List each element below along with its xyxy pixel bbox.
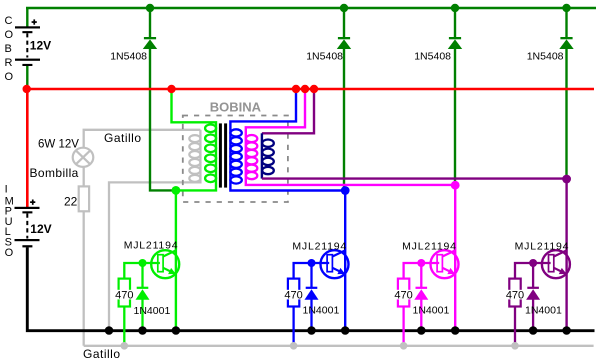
secondary winding 3 loops bbox=[262, 140, 274, 175]
transistor Q2 MJL21194 base wire bbox=[294, 263, 330, 279]
junction red rail battery bbox=[23, 85, 31, 93]
svg-text:470: 470 bbox=[506, 290, 524, 302]
junction ground rail emitter Q1 bbox=[172, 326, 181, 335]
wire diode Q3 to ground rail bbox=[420, 300, 422, 331]
junction Q1 base bbox=[139, 259, 147, 267]
wire lamp top to trigger winding bbox=[84, 130, 201, 148]
svg-text:12V: 12V bbox=[30, 39, 51, 53]
svg-text:O: O bbox=[5, 71, 14, 83]
svg-text:470: 470 bbox=[115, 290, 133, 302]
transistor Q4 emitter arrow bbox=[559, 268, 567, 274]
label IMPULSO vertical bbox=[5, 183, 14, 259]
svg-text:470: 470 bbox=[284, 290, 302, 302]
secondary winding 3 spine bbox=[261, 133, 263, 178]
transistor Q1 emitter arrow bbox=[168, 268, 176, 274]
lamp bulb Bombilla 6W 12V bbox=[73, 148, 94, 167]
svg-text:12V: 12V bbox=[30, 222, 51, 236]
svg-text:BOBINA: BOBINA bbox=[210, 100, 262, 115]
wire diode D1 to node A bbox=[150, 49, 176, 191]
svg-text:1N5408: 1N5408 bbox=[110, 51, 147, 63]
node D secondary 3 to Q4 bbox=[562, 175, 571, 184]
svg-text:1N4001: 1N4001 bbox=[134, 305, 171, 317]
top supply rail COBRO bbox=[26, 7, 596, 9]
battery IMPULSO dashed center bbox=[26, 214, 28, 239]
wire resistor Q4 to Gatillo line bbox=[514, 307, 516, 346]
resistor 470 Q4 bbox=[509, 279, 520, 307]
junction Gatillo resistor Q4 bbox=[511, 342, 519, 350]
junction ground rail trigger winding bbox=[105, 326, 114, 335]
value 470 Q1 bbox=[115, 290, 134, 302]
junction top rail D1 bbox=[146, 4, 154, 12]
node B secondary 1 to Q2 bbox=[341, 186, 350, 195]
svg-text:1N5408: 1N5408 bbox=[527, 51, 564, 63]
wire battery COBRO - to red rail bbox=[26, 66, 28, 90]
middle red rail bbox=[26, 88, 594, 91]
junction ground rail emitter Q3 bbox=[451, 326, 460, 335]
wire rail to diode D4 bbox=[565, 8, 567, 37]
secondary winding 1 wire from red rail bbox=[230, 89, 345, 191]
diode 1N4001 Q3 bbox=[414, 287, 428, 300]
value 470 Q2 bbox=[284, 290, 303, 302]
transistor Q4 collector stroke bbox=[554, 251, 567, 257]
transistor Q3 MJL21194 base wire bbox=[404, 263, 440, 279]
wire node D to transistor Q4 collector bbox=[565, 179, 567, 331]
junction red rail secondary 2 bbox=[301, 85, 309, 93]
diode D2 1N5408 bbox=[337, 37, 351, 49]
transistor Q3 emitter arrow bbox=[447, 268, 455, 274]
wire resistor Q1 to Gatillo line bbox=[123, 307, 125, 346]
transistor Q2 emitter stroke bbox=[332, 268, 344, 274]
junction Q2 base bbox=[308, 259, 316, 267]
wire diode D4 to node D bbox=[565, 49, 567, 179]
diode D4 1N5408 bbox=[559, 37, 573, 49]
junction top rail D2 bbox=[340, 4, 348, 12]
transistor Q1 base bar bbox=[158, 255, 163, 272]
wire battery COBRO + to rail bbox=[26, 8, 28, 27]
svg-text:B: B bbox=[5, 43, 12, 55]
wire diode Q1 to ground rail bbox=[141, 300, 143, 331]
wire battery IMPULSO - to ground rail bbox=[27, 247, 594, 330]
wire node A to transistor Q1 collector bbox=[175, 190, 177, 330]
svg-text:MJL21194: MJL21194 bbox=[515, 241, 570, 253]
wire diode D3 to node C bbox=[454, 49, 456, 183]
transistor Q2 circle bbox=[321, 250, 349, 278]
transformer core bar 1 bbox=[219, 123, 222, 187]
resistor 22 bbox=[79, 186, 89, 211]
transistor Q1 emitter stroke bbox=[163, 268, 175, 274]
junction ground rail diode Q4 bbox=[529, 326, 538, 335]
svg-text:1N5408: 1N5408 bbox=[414, 51, 451, 63]
diode 1N4001 Q4 bbox=[526, 287, 540, 300]
Gatillo trigger bus wire bbox=[84, 345, 594, 347]
junction top rail D3 bbox=[451, 4, 459, 12]
wire resistor 22 down to Gatillo line bbox=[83, 211, 85, 345]
svg-text:Gatillo: Gatillo bbox=[104, 131, 142, 145]
svg-text:O: O bbox=[5, 29, 14, 41]
resistor 470 Q3 bbox=[398, 279, 409, 307]
label + battery IMPULSO bbox=[30, 200, 35, 205]
junction ground rail diode Q1 bbox=[138, 326, 147, 335]
transformer core bar 2 bbox=[224, 123, 227, 187]
wire Q3 base to diode bbox=[420, 263, 422, 287]
wire Q1 base to diode bbox=[141, 263, 143, 287]
junction ground rail diode Q3 bbox=[417, 326, 426, 335]
svg-text:R: R bbox=[5, 57, 13, 69]
primary winding loops bbox=[205, 125, 216, 183]
trigger winding loops bbox=[189, 135, 200, 182]
diode 1N4001 Q2 bbox=[305, 287, 319, 300]
svg-text:1N4001: 1N4001 bbox=[525, 305, 562, 317]
wire winding 3 to node D bbox=[262, 177, 567, 179]
transistor Q4 MJL21194 base wire bbox=[515, 263, 551, 279]
transistor Q2 collector stroke bbox=[332, 251, 345, 257]
wire diode D2 to node B bbox=[343, 49, 345, 191]
transistor Q1 circle bbox=[151, 250, 179, 278]
svg-text:1N4001: 1N4001 bbox=[413, 305, 450, 317]
svg-text:1N4001: 1N4001 bbox=[303, 305, 340, 317]
svg-text:Gatillo: Gatillo bbox=[83, 347, 121, 361]
transistor Q3 emitter stroke bbox=[442, 268, 454, 274]
junction Q4 base bbox=[529, 259, 537, 267]
transistor Q4 circle bbox=[542, 250, 570, 278]
wire resistor Q3 to Gatillo line bbox=[402, 307, 404, 346]
node C secondary 2 to Q3 bbox=[451, 181, 460, 190]
secondary winding 2 wire from red rail bbox=[246, 89, 455, 185]
svg-text:470: 470 bbox=[394, 290, 412, 302]
trigger winding spine bbox=[109, 130, 200, 331]
junction red rail secondary 1 bbox=[292, 85, 300, 93]
junction red rail secondary 3 bbox=[310, 85, 318, 93]
svg-text:MJL21194: MJL21194 bbox=[292, 241, 347, 253]
label COBRO vertical bbox=[5, 15, 14, 83]
battery COBRO 12V bbox=[15, 26, 40, 66]
resistor 470 Q1 bbox=[119, 279, 130, 307]
transistor Q3 collector stroke bbox=[442, 251, 455, 257]
wire Q4 base to diode bbox=[532, 263, 534, 287]
battery IMPULSO 12V bbox=[15, 207, 40, 248]
junction Q3 base bbox=[417, 259, 425, 267]
transistor Q3 base bar bbox=[437, 255, 442, 272]
transistor Q2 emitter arrow bbox=[337, 268, 345, 274]
junction Gatillo resistor Q3 bbox=[400, 342, 408, 350]
secondary winding 2 loops bbox=[246, 135, 257, 179]
wire diode Q2 to ground rail bbox=[310, 300, 312, 331]
diode D1 1N5408 bbox=[143, 37, 157, 49]
wire node C to transistor Q3 collector bbox=[454, 185, 456, 331]
svg-text:6W 12V: 6W 12V bbox=[38, 138, 79, 150]
value 470 Q4 bbox=[506, 290, 525, 302]
svg-text:I: I bbox=[5, 183, 8, 195]
transistor Q4 emitter stroke bbox=[554, 268, 566, 274]
junction ground rail emitter Q4 bbox=[562, 326, 571, 335]
battery COBRO dashed center bbox=[26, 33, 28, 57]
svg-text:C: C bbox=[5, 15, 13, 27]
wire node B to transistor Q2 collector bbox=[344, 191, 346, 331]
wire lamp to resistor R22 bbox=[83, 167, 85, 186]
junction ground rail emitter Q2 bbox=[341, 326, 350, 335]
svg-text:MJL21194: MJL21194 bbox=[402, 241, 457, 253]
svg-text:1N5408: 1N5408 bbox=[306, 51, 343, 63]
transistor Q1 collector stroke bbox=[163, 251, 176, 257]
junction Gatillo resistor Q1 bbox=[121, 342, 129, 350]
node A primary to Q1 bbox=[172, 186, 181, 195]
transistor Q1 MJL21194 base wire bbox=[124, 263, 160, 279]
svg-text:MJL21194: MJL21194 bbox=[124, 240, 179, 252]
wire rail to diode D1 bbox=[149, 8, 151, 37]
secondary winding 3 wire from red rail bbox=[262, 89, 314, 133]
junction ground rail diode Q2 bbox=[307, 326, 316, 335]
value 470 Q3 bbox=[394, 290, 413, 302]
diode 1N4001 Q1 bbox=[136, 287, 150, 300]
svg-text:22: 22 bbox=[64, 194, 78, 208]
transistor Q4 base bar bbox=[549, 255, 554, 272]
junction Gatillo resistor Q2 bbox=[290, 342, 298, 350]
secondary winding 1 loops bbox=[230, 129, 241, 183]
primary winding wire from red rail bbox=[172, 89, 217, 190]
junction red rail primary bbox=[167, 85, 175, 93]
svg-text:O: O bbox=[5, 247, 14, 259]
svg-text:Bombilla: Bombilla bbox=[30, 166, 79, 180]
wire diode Q4 to ground rail bbox=[532, 300, 534, 331]
diode D3 1N5408 bbox=[448, 37, 462, 49]
transistor Q3 circle bbox=[431, 250, 459, 278]
wire rail to diode D3 bbox=[454, 8, 456, 37]
resistor 470 Q2 bbox=[288, 279, 299, 307]
BOBINA dashed enclosure bbox=[183, 116, 288, 203]
label + battery COBRO bbox=[32, 19, 37, 24]
wire rail to diode D2 bbox=[343, 8, 345, 37]
wire Q2 base to diode bbox=[310, 263, 312, 287]
transistor Q2 base bar bbox=[327, 255, 332, 272]
junction top rail D4 bbox=[562, 4, 570, 12]
wire resistor Q2 to Gatillo line bbox=[292, 307, 294, 346]
wire red rail to battery IMPULSO + bbox=[26, 89, 29, 207]
